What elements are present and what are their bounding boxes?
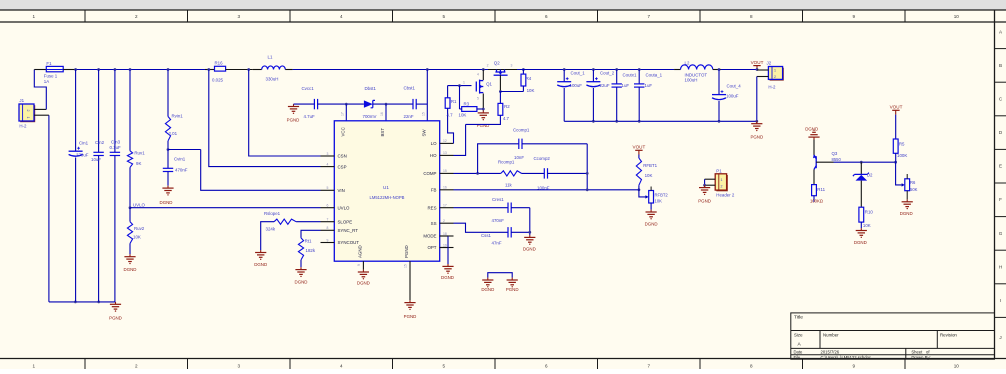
- svg-text:DGND: DGND: [357, 281, 370, 286]
- svg-text:10K: 10K: [863, 223, 871, 228]
- svg-text:1: 1: [32, 14, 35, 19]
- svg-text:LO: LO: [431, 141, 437, 146]
- wire J1 pin2 down: [48, 115, 50, 302]
- svg-text:R16: R16: [215, 60, 224, 65]
- capacitor Css1: [454, 223, 509, 232]
- wire main input rail: [76, 69, 205, 71]
- svg-text:4: 4: [477, 73, 479, 77]
- resistor R3: [459, 86, 461, 109]
- svg-text:7: 7: [647, 14, 650, 19]
- resistor RFBT1: [638, 155, 640, 159]
- capacitor Cout_4: [718, 70, 720, 95]
- svg-text:Cvin1: Cvin1: [174, 156, 186, 161]
- svg-text:100KΩ: 100KΩ: [810, 198, 823, 203]
- resistor Rt1: [301, 230, 321, 238]
- svg-text:PGND: PGND: [404, 245, 409, 258]
- svg-text:Ccomp1: Ccomp1: [513, 128, 530, 133]
- wire L2 to J2: [721, 69, 757, 71]
- svg-text:7: 7: [327, 218, 329, 222]
- svg-text:15: 15: [422, 112, 426, 116]
- svg-text:OPT: OPT: [427, 245, 436, 250]
- diode Dbst1: [364, 100, 373, 107]
- wire CSN to pin3: [249, 70, 321, 157]
- svg-text:8: 8: [750, 14, 753, 19]
- capacitor Coutx1: [616, 70, 618, 84]
- svg-text:DGND: DGND: [900, 211, 913, 216]
- svg-text:Dbst1: Dbst1: [365, 86, 377, 91]
- svg-text:1: 1: [32, 364, 35, 369]
- svg-text:4: 4: [327, 162, 329, 166]
- power ground DGND Ruv2: [129, 254, 131, 256]
- power ground PGND input rail: [115, 302, 117, 304]
- wire VIN to pin5: [168, 149, 201, 151]
- capacitor Cin3: [114, 70, 116, 153]
- svg-text:VOUT: VOUT: [890, 105, 903, 110]
- svg-text:R6: R6: [910, 180, 916, 185]
- svg-text:330uH: 330uH: [266, 76, 279, 81]
- svg-text:SYNC_RT: SYNC_RT: [338, 228, 359, 233]
- svg-text:SS: SS: [431, 221, 437, 226]
- wire SW stub: [426, 70, 428, 121]
- inductor L2: [674, 69, 680, 71]
- capacitor Cin2: [98, 70, 100, 153]
- svg-text:R4: R4: [526, 76, 532, 81]
- svg-text:DGND: DGND: [254, 262, 267, 267]
- power ground DGND R10: [860, 228, 862, 230]
- svg-text:5: 5: [442, 14, 445, 19]
- power ground PGND output: [756, 121, 758, 123]
- resistor R6 trimmer: [896, 162, 902, 185]
- svg-text:J1: J1: [19, 98, 24, 103]
- svg-text:J2: J2: [767, 61, 772, 66]
- inductor L1: [253, 69, 262, 71]
- fuse F1: [41, 69, 46, 71]
- svg-text:Q2: Q2: [494, 61, 500, 66]
- svg-text:Couta_1: Couta_1: [646, 72, 663, 77]
- power ground PGND Q1: [482, 111, 484, 113]
- wire CSP to pin4: [209, 70, 321, 167]
- wire res ss ground: [529, 208, 531, 235]
- svg-text:12: 12: [443, 139, 447, 143]
- svg-text:Cout_2: Cout_2: [600, 70, 615, 75]
- wire Q1 gate: [448, 85, 472, 87]
- svg-text:RES: RES: [427, 205, 436, 210]
- svg-text:1: 1: [463, 80, 465, 84]
- svg-text:1uF: 1uF: [645, 83, 653, 88]
- svg-text:324k: 324k: [266, 226, 276, 231]
- svg-text:R1: R1: [451, 99, 457, 104]
- sheet border top ruler: [0, 10, 1006, 22]
- transistor Q2: [488, 69, 517, 71]
- svg-text:470nF: 470nF: [492, 218, 505, 223]
- svg-text:Css1: Css1: [481, 233, 492, 238]
- sheet border right ruler: [995, 10, 1006, 359]
- transistor Q1: [482, 70, 484, 81]
- wire J1 pin1 to fuse: [34, 70, 46, 110]
- svg-text:4: 4: [340, 364, 343, 369]
- resistor R16 current sense: [205, 69, 215, 71]
- svg-text:RFBT2: RFBT2: [655, 192, 669, 197]
- svg-text:100K: 100K: [897, 153, 907, 158]
- capacitor Ccomp1: [478, 144, 519, 174]
- svg-text:LM5122MH-NOPB: LM5122MH-NOPB: [370, 195, 405, 200]
- svg-text:DGND: DGND: [481, 287, 494, 292]
- svg-text:9: 9: [357, 264, 361, 266]
- svg-text:Revision: Revision: [940, 333, 957, 338]
- svg-text:9: 9: [852, 364, 855, 369]
- svg-text:L1: L1: [268, 54, 273, 59]
- svg-text:4: 4: [340, 14, 343, 19]
- svg-text:Header 2: Header 2: [716, 193, 735, 198]
- svg-text:8550: 8550: [832, 157, 842, 162]
- capacitor Cvcc1: [294, 103, 315, 105]
- svg-text:16: 16: [443, 186, 447, 190]
- svg-text:6: 6: [327, 204, 329, 208]
- svg-text:H-2: H-2: [768, 85, 776, 90]
- svg-text:DGND: DGND: [441, 275, 454, 280]
- power ground DGND Cres Css: [529, 235, 531, 237]
- svg-text:Q3: Q3: [832, 151, 838, 156]
- svg-text:BST: BST: [380, 128, 385, 137]
- svg-text:13: 13: [443, 151, 447, 155]
- resistor Rslope1: [296, 221, 320, 223]
- resistor RFBT2 trimmer: [639, 190, 646, 197]
- svg-text:1uF: 1uF: [622, 83, 630, 88]
- svg-text:F: F: [999, 197, 1002, 202]
- svg-text:0.025: 0.025: [212, 78, 224, 83]
- svg-text:PGND: PGND: [287, 118, 300, 123]
- power ground DGND MODE OPT: [447, 264, 449, 266]
- svg-text:Cbst1: Cbst1: [404, 85, 416, 90]
- svg-text:22nF: 22nF: [404, 114, 414, 119]
- svg-text:PGND: PGND: [750, 135, 763, 140]
- wire COMP: [454, 172, 501, 174]
- svg-text:100uF: 100uF: [570, 83, 583, 88]
- svg-text:2: 2: [135, 364, 138, 369]
- svg-text:Number: Number: [823, 333, 839, 338]
- svg-text:UVLO: UVLO: [133, 202, 146, 207]
- svg-text:9: 9: [852, 14, 855, 19]
- svg-text:Rcomp1: Rcomp1: [498, 160, 515, 165]
- svg-text:R2: R2: [504, 104, 510, 109]
- power ground PGND pin: [409, 300, 411, 302]
- svg-text:10K: 10K: [459, 113, 467, 118]
- svg-text:47nF: 47nF: [492, 240, 502, 245]
- svg-text:Ccomp2: Ccomp2: [534, 156, 551, 161]
- svg-text:R3: R3: [464, 101, 470, 106]
- svg-text:2: 2: [443, 219, 445, 223]
- wire UVLO: [130, 207, 321, 209]
- svg-text:PGND: PGND: [477, 123, 490, 128]
- resistor Rvin1: [167, 70, 169, 117]
- power ground DGND Rslope: [260, 250, 262, 252]
- svg-text:10K: 10K: [133, 235, 141, 240]
- svg-text:INDUCTOT: INDUCTOT: [685, 72, 708, 77]
- resistor Rcomp1: [501, 171, 522, 176]
- power ground DGND R6: [906, 199, 908, 201]
- svg-text:11k: 11k: [505, 183, 513, 188]
- title block: [791, 313, 995, 359]
- power ground DGND RFBT2: [650, 210, 652, 212]
- capacitor Cbst1: [412, 99, 414, 109]
- svg-text:2: 2: [26, 110, 30, 112]
- wire output ground rail: [564, 120, 757, 122]
- svg-text:700mV: 700mV: [363, 114, 377, 119]
- wire FB: [454, 189, 639, 191]
- svg-text:270uF: 270uF: [76, 152, 89, 157]
- svg-text:10nF: 10nF: [514, 155, 524, 160]
- svg-text:R11: R11: [817, 187, 825, 192]
- svg-text:2: 2: [487, 64, 489, 68]
- connector P1 Header 2: [716, 175, 727, 191]
- svg-text:DGND: DGND: [854, 240, 867, 245]
- svg-text:C:\Users\..\LM5122.schdoc: C:\Users\..\LM5122.schdoc: [821, 355, 872, 360]
- svg-text:CSP: CSP: [338, 164, 347, 169]
- svg-text:PGND: PGND: [698, 199, 711, 204]
- svg-text:E: E: [999, 164, 1002, 169]
- svg-text:8: 8: [750, 364, 753, 369]
- svg-text:CSN: CSN: [338, 154, 347, 159]
- svg-text:10K: 10K: [645, 173, 653, 178]
- svg-text:3: 3: [237, 14, 240, 19]
- svg-text:2015/7/26: 2015/7/26: [821, 350, 840, 355]
- svg-text:7: 7: [647, 364, 650, 369]
- wire BST stub: [385, 103, 388, 106]
- svg-text:VOUT: VOUT: [633, 145, 646, 150]
- svg-text:Date: Date: [794, 350, 804, 355]
- svg-text:182k: 182k: [306, 248, 316, 253]
- resistor R4: [522, 68, 525, 71]
- svg-text:1: 1: [721, 178, 723, 182]
- svg-text:Cin3: Cin3: [111, 139, 121, 144]
- svg-text:0.1uF: 0.1uF: [110, 145, 122, 150]
- wire input ground rail: [49, 301, 116, 303]
- power ground DGND Cvin1: [167, 186, 169, 188]
- svg-text:P1: P1: [716, 168, 722, 173]
- svg-text:22uF: 22uF: [600, 83, 610, 88]
- svg-text:4.7: 4.7: [503, 116, 510, 121]
- resistor R2: [498, 103, 503, 115]
- svg-text:AGND: AGND: [358, 245, 363, 258]
- svg-text:15: 15: [443, 169, 447, 173]
- svg-text:Cout_1: Cout_1: [571, 70, 586, 75]
- svg-text:UVLO: UVLO: [338, 205, 351, 210]
- svg-text:Cin1: Cin1: [79, 140, 89, 145]
- wire HO: [454, 124, 466, 155]
- power ground DGND net tie: [487, 278, 489, 280]
- svg-text:3: 3: [237, 364, 240, 369]
- svg-text:Cin2: Cin2: [95, 140, 105, 145]
- svg-text:DGND: DGND: [805, 127, 818, 132]
- sheet border bottom ruler: [0, 359, 1006, 370]
- svg-text:Ruv1: Ruv1: [134, 150, 145, 155]
- svg-text:Cout_4: Cout_4: [727, 83, 742, 88]
- svg-text:18: 18: [443, 232, 447, 236]
- svg-text:SW: SW: [422, 129, 427, 137]
- svg-text:10: 10: [954, 14, 960, 19]
- svg-text:COMP: COMP: [423, 171, 436, 176]
- svg-text:19: 19: [443, 243, 447, 247]
- svg-text:VCC: VCC: [341, 127, 346, 136]
- svg-text:DGND: DGND: [160, 200, 173, 205]
- resistor Ruv2: [129, 206, 132, 209]
- svg-text:SYNCOUT: SYNCOUT: [338, 240, 360, 245]
- wire VCC stub: [345, 103, 348, 106]
- svg-text:9K: 9K: [136, 161, 141, 166]
- svg-text:15: 15: [404, 264, 408, 268]
- resistor Ruv1: [129, 70, 131, 151]
- svg-text:H-2: H-2: [19, 124, 27, 129]
- svg-text:Rt1: Rt1: [305, 238, 312, 243]
- svg-text:J: J: [999, 335, 1001, 340]
- svg-text:VOUT: VOUT: [751, 60, 764, 65]
- svg-text:PGND: PGND: [109, 316, 122, 321]
- svg-text:F1: F1: [46, 61, 52, 66]
- diode D2 zener: [860, 162, 862, 174]
- svg-text:H: H: [999, 264, 1002, 269]
- svg-text:Title: Title: [794, 315, 803, 321]
- svg-text:Cres1: Cres1: [492, 197, 504, 202]
- svg-text:DGND: DGND: [124, 267, 137, 272]
- svg-text:2: 2: [721, 184, 723, 188]
- svg-text:PGND: PGND: [404, 314, 417, 319]
- svg-text:10K: 10K: [527, 88, 535, 93]
- transistor Q3: [813, 140, 815, 156]
- capacitor Couta_1: [638, 70, 640, 84]
- svg-text:DGND: DGND: [295, 280, 308, 285]
- svg-text:9: 9: [327, 238, 329, 242]
- capacitor Cout_2: [592, 70, 594, 82]
- wire Q3 base node: [834, 161, 896, 163]
- capacitor Cin1: [75, 70, 77, 152]
- pins U1 right: [440, 143, 454, 247]
- svg-text:MODE: MODE: [423, 234, 436, 239]
- svg-text:8: 8: [327, 226, 329, 230]
- wire SW rail: [293, 69, 495, 71]
- power ground PGND net tie: [511, 278, 513, 280]
- svg-text:100uH: 100uH: [685, 78, 698, 83]
- svg-text:Coutx1: Coutx1: [623, 72, 637, 77]
- svg-text:HO: HO: [430, 153, 437, 158]
- svg-text:6: 6: [545, 364, 548, 369]
- svg-text:10: 10: [954, 364, 960, 369]
- resistor R10: [859, 207, 864, 222]
- wire comp to FB: [586, 144, 588, 190]
- resistor R11: [813, 169, 815, 184]
- svg-text:5: 5: [442, 364, 445, 369]
- svg-text:Sheet: Sheet: [911, 350, 923, 355]
- pins U1 left: [321, 156, 335, 243]
- svg-text:RFBT1: RFBT1: [643, 163, 657, 168]
- svg-text:5: 5: [477, 97, 479, 101]
- svg-text:4.7uF: 4.7uF: [304, 114, 316, 119]
- svg-text:G: G: [999, 231, 1003, 236]
- connector J1: [20, 105, 35, 122]
- power ground PGND Cvcc: [293, 104, 295, 106]
- svg-text:470nF: 470nF: [175, 167, 188, 172]
- svg-text:5: 5: [327, 186, 329, 190]
- svg-text:B: B: [999, 63, 1002, 68]
- svg-text:I: I: [1000, 298, 1001, 303]
- power ground DGND AGND pin: [362, 270, 364, 272]
- svg-text:VIN: VIN: [338, 188, 345, 193]
- svg-text:SLOPE: SLOPE: [338, 219, 353, 224]
- svg-text:U1: U1: [383, 185, 389, 190]
- svg-text:1: 1: [774, 69, 776, 73]
- pins U1 bottom: [363, 261, 410, 300]
- svg-text:Ruv2: Ruv2: [134, 226, 145, 231]
- svg-text:1: 1: [26, 117, 30, 119]
- svg-text:Fuse 1: Fuse 1: [44, 74, 58, 79]
- resistor R5: [895, 115, 897, 139]
- svg-text:Drawn By:: Drawn By:: [911, 355, 930, 360]
- svg-text:PGND: PGND: [506, 287, 519, 292]
- svg-text:4.7: 4.7: [447, 113, 454, 118]
- svg-text:6: 6: [545, 14, 548, 19]
- svg-text:Q1: Q1: [486, 81, 492, 86]
- svg-text:DGND: DGND: [645, 221, 658, 226]
- capacitor Ccomp2: [543, 168, 545, 178]
- wire MODE OPT to ground: [447, 236, 449, 248]
- svg-text:2: 2: [774, 75, 776, 79]
- svg-text:50K: 50K: [910, 187, 918, 192]
- svg-text:Size: Size: [794, 333, 803, 338]
- net tie DGND PGND: [488, 273, 512, 278]
- svg-text:L2: L2: [685, 60, 690, 65]
- wire Q2 gate to R4 R2: [499, 75, 501, 91]
- svg-text:3: 3: [511, 64, 513, 68]
- power ground PGND P1: [704, 185, 706, 187]
- svg-text:D2: D2: [867, 173, 873, 178]
- svg-text:3: 3: [327, 152, 329, 156]
- svg-text:Rvin1: Rvin1: [172, 113, 184, 118]
- svg-text:R5: R5: [899, 142, 905, 147]
- svg-text:Cvcc1: Cvcc1: [302, 86, 315, 91]
- svg-text:17: 17: [341, 112, 345, 116]
- capacitor Cres1: [454, 207, 509, 209]
- resistor R1: [447, 86, 449, 98]
- svg-text:100uF: 100uF: [726, 94, 739, 99]
- svg-text:1A: 1A: [44, 79, 49, 84]
- svg-text:17: 17: [443, 204, 447, 208]
- connector J2: [770, 68, 784, 81]
- svg-text:10uF: 10uF: [91, 157, 101, 162]
- wire P1 pins tied: [704, 179, 706, 185]
- svg-text:FB: FB: [431, 188, 437, 193]
- capacitor Cvin1: [167, 148, 170, 151]
- op-amp U1 LM5122MH-NOPB: [334, 121, 439, 261]
- wire J2 pin2 down: [756, 77, 758, 122]
- svg-text:10K: 10K: [655, 198, 663, 203]
- svg-text:DGND: DGND: [523, 247, 536, 252]
- window chrome bar: [0, 0, 1006, 10]
- svg-text:2: 2: [135, 14, 138, 19]
- power ground DGND Rt: [300, 267, 302, 269]
- svg-text:16: 16: [380, 112, 384, 116]
- svg-text:Rslope1: Rslope1: [264, 211, 281, 216]
- svg-text:File: File: [794, 355, 801, 360]
- svg-text:2.01: 2.01: [169, 131, 178, 136]
- capacitor Cout_1: [563, 70, 565, 82]
- wire output rail: [517, 69, 674, 71]
- svg-text:R10: R10: [865, 210, 874, 215]
